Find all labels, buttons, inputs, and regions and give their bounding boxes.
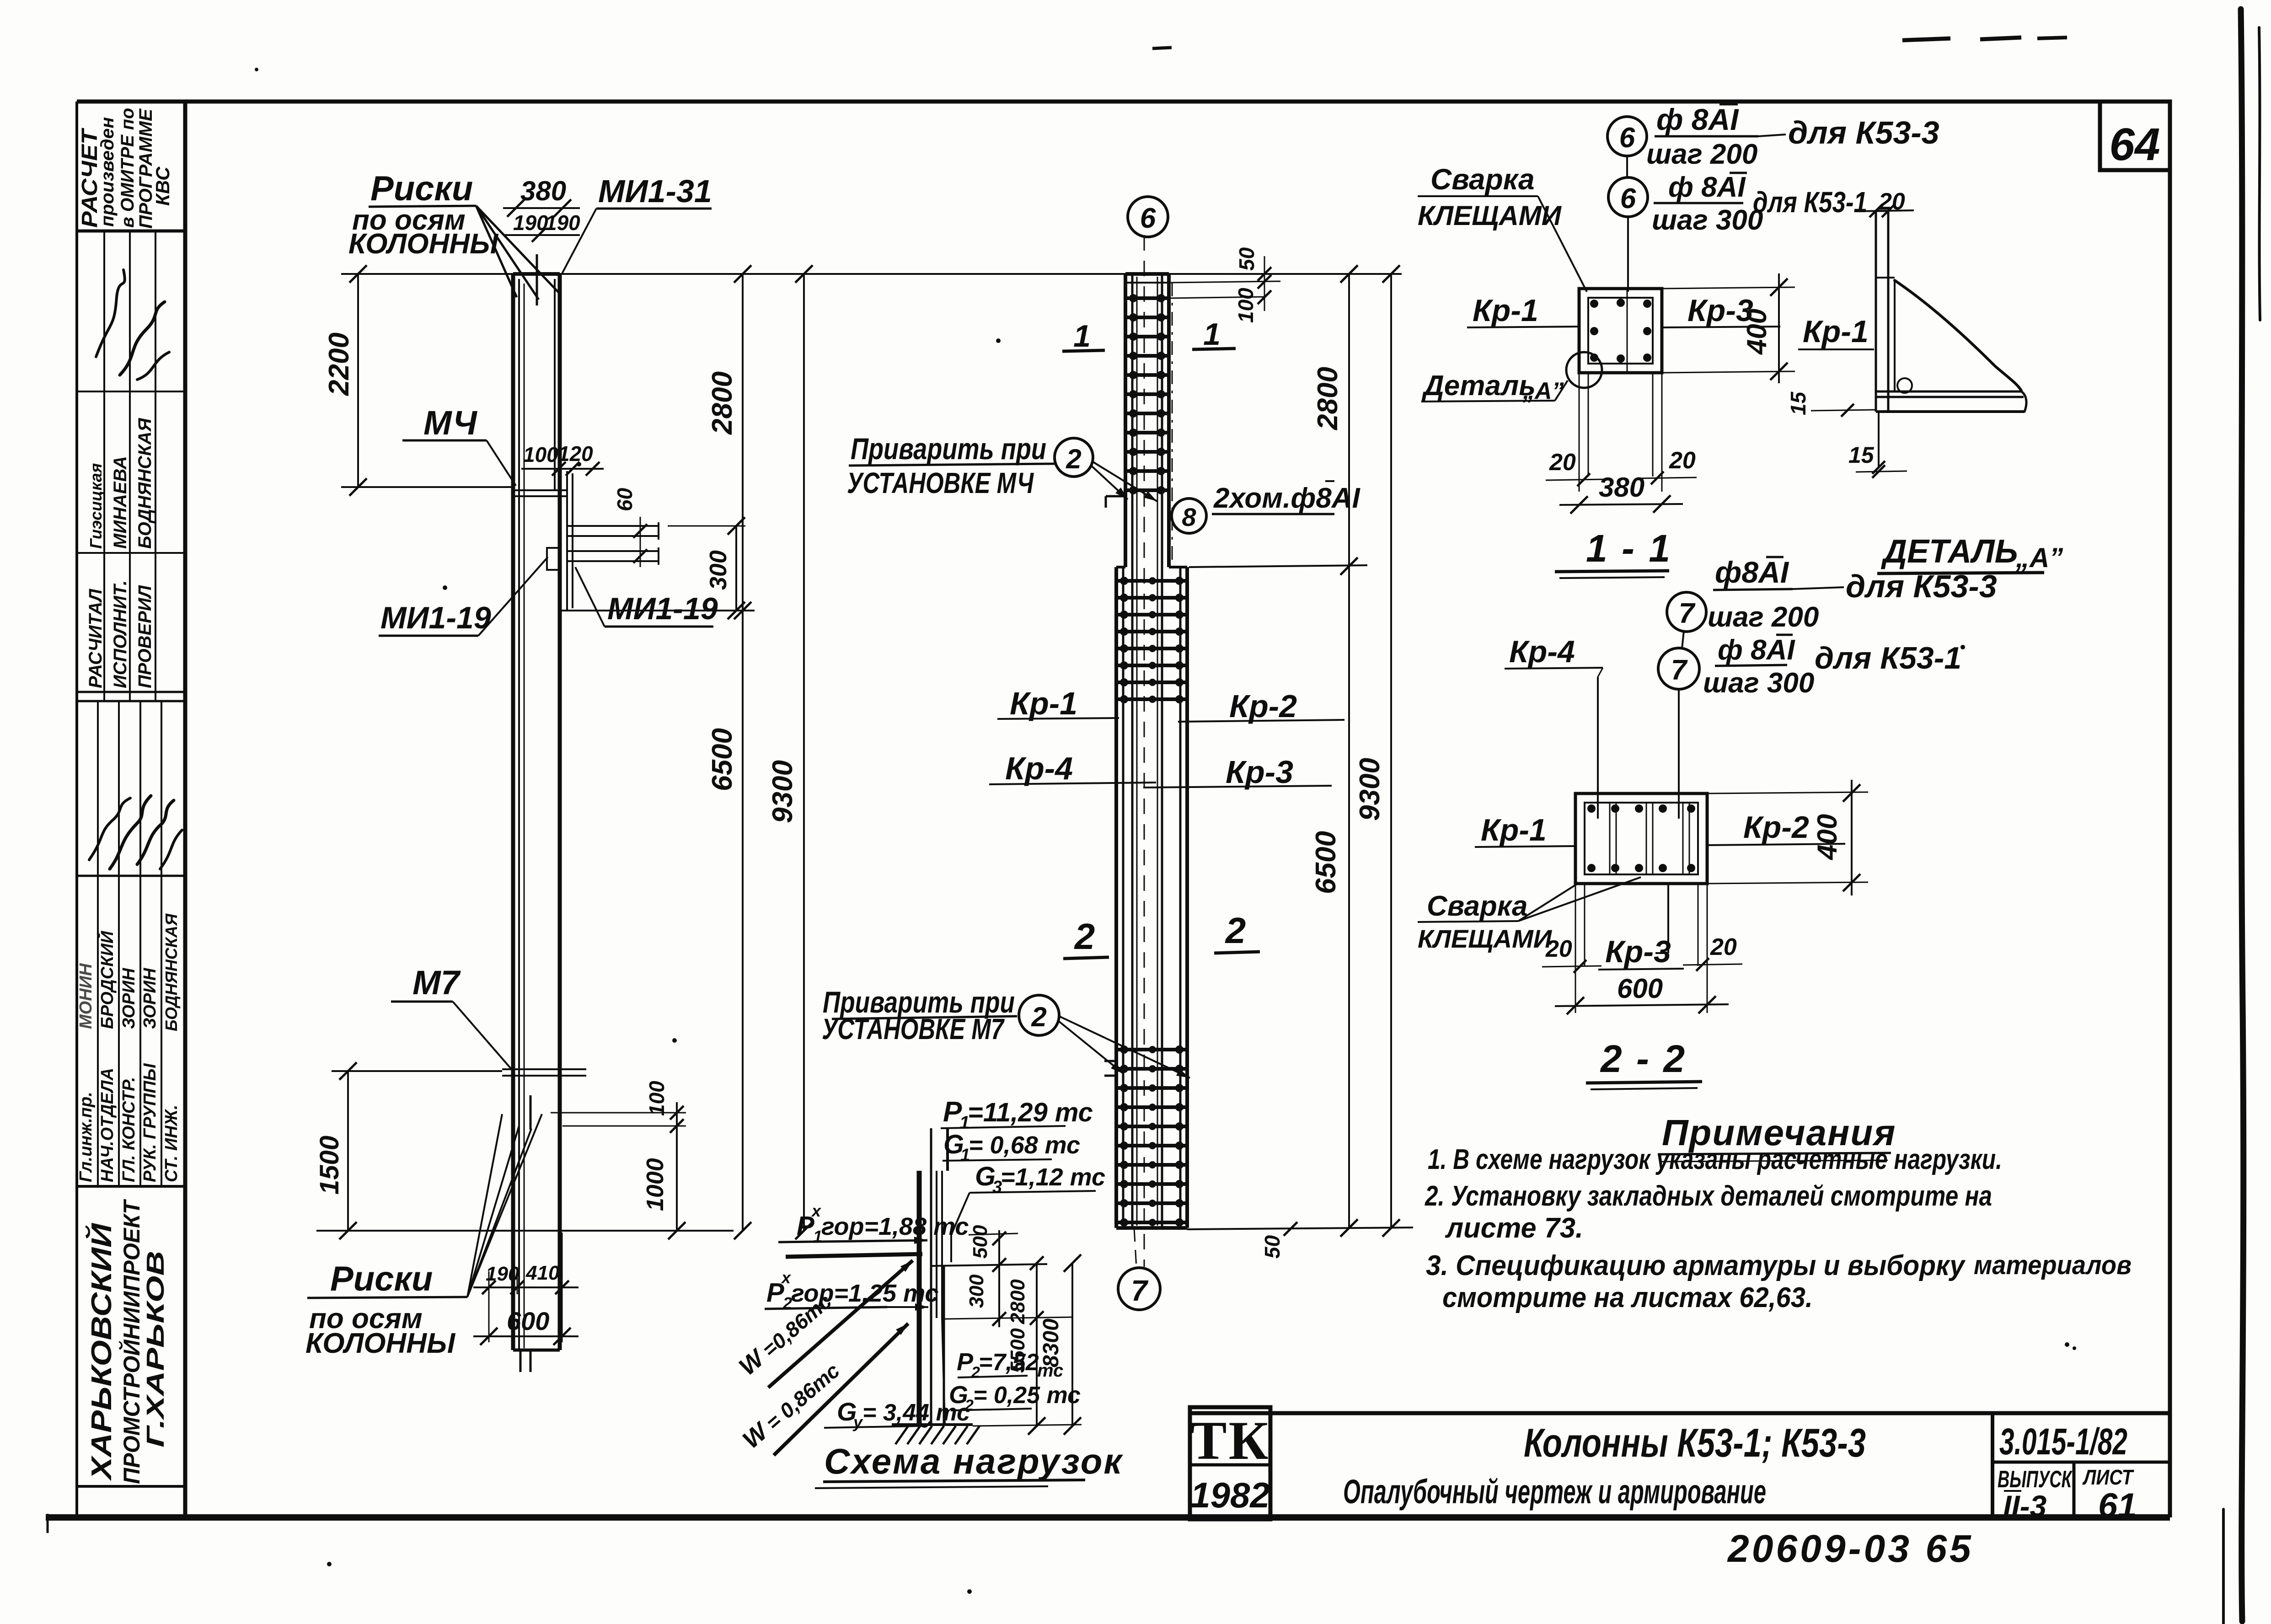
svg-text:6500: 6500 [707, 728, 738, 791]
svg-text:= 0,25 тс: = 0,25 тс [973, 1382, 1081, 1409]
svg-text:190: 190 [545, 211, 580, 235]
svg-text:УСТАНОВКЕ М7: УСТАНОВКЕ М7 [822, 1013, 1005, 1045]
svg-text:шаг 200: шаг 200 [1646, 139, 1757, 170]
svg-text:2: 2 [1225, 910, 1246, 951]
svg-text:ЗОРИН: ЗОРИН [140, 967, 160, 1029]
svg-text:БРОДСКИЙ: БРОДСКИЙ [96, 931, 117, 1029]
svg-text:6: 6 [1620, 183, 1636, 214]
svg-text:60: 60 [613, 488, 637, 511]
svg-text:600: 600 [1617, 973, 1663, 1004]
svg-text:Кр-4: Кр-4 [1509, 634, 1575, 669]
svg-text:9300: 9300 [1354, 758, 1386, 821]
svg-text:шаг 300: шаг 300 [1703, 667, 1814, 699]
svg-text:УСТАНОВКЕ МЧ: УСТАНОВКЕ МЧ [847, 466, 1034, 499]
svg-text:ЗОРИН: ЗОРИН [119, 967, 139, 1029]
svg-text:1 - 1: 1 - 1 [1586, 527, 1672, 570]
svg-text:Опалубочный чертеж и армирован: Опалубочный чертеж и армирование [1343, 1473, 1766, 1511]
svg-text:Риски: Риски [370, 169, 473, 208]
svg-text:3.015-1/82: 3.015-1/82 [1999, 1421, 2127, 1463]
svg-text:Г.ХАРЬКОВ: Г.ХАРЬКОВ [142, 1251, 169, 1447]
svg-text:КЛЕЩАМИ: КЛЕЩАМИ [1418, 200, 1562, 231]
svg-text:2800: 2800 [1312, 367, 1344, 430]
svg-text:КЛЕЩАМИ: КЛЕЩАМИ [1418, 924, 1553, 953]
svg-text:КВС: КВС [152, 166, 173, 206]
svg-text:листе 73.: листе 73. [1445, 1212, 1583, 1244]
svg-text:2: 2 [964, 1397, 974, 1414]
svg-text:2800: 2800 [1007, 1279, 1029, 1324]
svg-text:ДЕТАЛЬ: ДЕТАЛЬ [1880, 533, 2018, 570]
svg-text:20: 20 [1545, 936, 1572, 962]
svg-text:смотрите на листах 62,63.: смотрите на листах 62,63. [1442, 1282, 1813, 1313]
svg-text:Схема нагрузок: Схема нагрузок [824, 1441, 1123, 1481]
svg-text:Кр-3: Кр-3 [1605, 934, 1671, 969]
svg-text:20609-03 65: 20609-03 65 [1727, 1527, 1974, 1570]
svg-text:15: 15 [1786, 391, 1810, 415]
svg-text:600: 600 [507, 1307, 549, 1335]
svg-text:Приварить при: Приварить при [851, 432, 1046, 466]
svg-text:2: 2 [1074, 916, 1095, 957]
svg-text:ф 8АI: ф 8АI [1718, 634, 1795, 666]
svg-text:1500: 1500 [315, 1136, 344, 1195]
svg-text:Колонны К53-1; К53-3: Колонны К53-1; К53-3 [1524, 1420, 1866, 1465]
svg-text:7: 7 [1679, 598, 1696, 629]
svg-text:Сварка: Сварка [1427, 890, 1527, 922]
svg-text:ТК: ТК [1190, 1410, 1270, 1471]
svg-text:400: 400 [1741, 309, 1772, 355]
svg-text:50: 50 [1235, 247, 1259, 271]
svg-text:ф 8АI: ф 8АI [1656, 102, 1739, 136]
svg-text:ХАРЬКОВСКИЙ: ХАРЬКОВСКИЙ [85, 1222, 118, 1481]
svg-text:Деталь: Деталь [1421, 370, 1536, 402]
svg-text:х: х [781, 1268, 792, 1287]
svg-text:20: 20 [1710, 934, 1737, 960]
svg-text:2 - 2: 2 - 2 [1600, 1037, 1687, 1080]
svg-text:Кр-1: Кр-1 [1010, 686, 1077, 721]
svg-text:410: 410 [525, 1262, 560, 1284]
svg-text:5500: 5500 [1007, 1328, 1029, 1373]
svg-text:материалов: материалов [1974, 1250, 2132, 1280]
svg-text:20: 20 [1669, 447, 1696, 474]
svg-text:400: 400 [1812, 814, 1843, 860]
svg-text:61: 61 [2098, 1486, 2137, 1525]
svg-text:ЛИСТ: ЛИСТ [2082, 1465, 2134, 1489]
svg-text:2800: 2800 [707, 371, 738, 435]
svg-text:64: 64 [2109, 119, 2160, 170]
svg-text:ИСПОЛНИТ.: ИСПОЛНИТ. [110, 580, 130, 688]
svg-text:КОЛОННЫ: КОЛОННЫ [348, 228, 499, 260]
svg-text:100: 100 [523, 443, 558, 466]
svg-text:ф8АI: ф8АI [1715, 555, 1789, 589]
svg-text:для К53-3: для К53-3 [1846, 568, 1997, 604]
svg-text:= 0,68 тс: = 0,68 тс [969, 1131, 1080, 1159]
svg-text:КОЛОННЫ: КОЛОННЫ [305, 1328, 456, 1359]
svg-text:300: 300 [965, 1274, 988, 1308]
svg-text:6: 6 [1140, 203, 1156, 234]
svg-text:Риски: Риски [330, 1260, 433, 1298]
svg-text:Кр-1: Кр-1 [1481, 813, 1547, 847]
svg-text:М7: М7 [412, 964, 461, 1002]
svg-text:БОДНЯНСКАЯ: БОДНЯНСКАЯ [135, 418, 155, 549]
svg-text:ПРОВЕРИЛ: ПРОВЕРИЛ [135, 584, 155, 688]
svg-text:НАЧ.ОТДЕЛА: НАЧ.ОТДЕЛА [98, 1068, 117, 1182]
svg-text:100: 100 [1234, 288, 1258, 323]
svg-text:Кр-1: Кр-1 [1473, 293, 1538, 328]
svg-text:в ОМИТРЕ по: в ОМИТРЕ по [118, 108, 138, 228]
svg-text:ГЛ. КОНСТР.: ГЛ. КОНСТР. [119, 1077, 139, 1182]
svg-text:Гл.инж.пр.: Гл.инж.пр. [76, 1092, 96, 1182]
svg-text:20: 20 [1549, 449, 1576, 476]
svg-text:8300: 8300 [1039, 1318, 1063, 1367]
svg-text:3. Спецификацию арматуры и выб: 3. Спецификацию арматуры и выборку [1426, 1250, 1966, 1281]
svg-text:Кр-4: Кр-4 [1005, 750, 1073, 786]
svg-text:ПРОМСТРОЙНИИПРОЕКТ: ПРОМСТРОЙНИИПРОЕКТ [118, 1199, 145, 1484]
svg-text:120: 120 [558, 442, 593, 466]
svg-text:для К53-1: для К53-1 [1753, 186, 1867, 219]
svg-text:8: 8 [1182, 503, 1196, 531]
svg-text:=1,12 тс: =1,12 тс [1001, 1163, 1105, 1191]
svg-text:РУК. ГРУППЫ: РУК. ГРУППЫ [140, 1063, 160, 1182]
svg-text:Гиэсицкая: Гиэсицкая [86, 463, 105, 549]
svg-text:2: 2 [1066, 444, 1081, 474]
svg-text:2: 2 [1031, 1002, 1046, 1032]
svg-text:Кр-2: Кр-2 [1743, 810, 1809, 845]
svg-text:Кр-3: Кр-3 [1226, 754, 1293, 790]
svg-text:„А”: „А” [2015, 542, 2063, 573]
svg-text:шаг 200: шаг 200 [1708, 601, 1819, 633]
svg-text:МИНАЕВА: МИНАЕВА [110, 456, 130, 549]
svg-text:РАСЧИТАЛ: РАСЧИТАЛ [86, 588, 106, 688]
svg-text:1: 1 [1073, 319, 1091, 354]
svg-text:МИ1-19: МИ1-19 [380, 600, 491, 635]
svg-text:ф 8АI: ф 8АI [1668, 172, 1746, 203]
svg-text:2. Установку закладных деталей: 2. Установку закладных деталей смотрите … [1425, 1180, 1992, 1212]
svg-text:1. В схеме нагрузок указаны ра: 1. В схеме нагрузок указаны расчетные на… [1428, 1144, 2002, 1175]
svg-text:2200: 2200 [323, 332, 355, 396]
svg-text:МОНИН: МОНИН [76, 963, 96, 1029]
svg-text:х: х [811, 1201, 822, 1220]
svg-text:для К53-1: для К53-1 [1815, 641, 1961, 675]
svg-text:БОДНЯНСКАЯ: БОДНЯНСКАЯ [162, 913, 181, 1031]
svg-text:СТ. ИНЖ.: СТ. ИНЖ. [162, 1105, 181, 1182]
svg-text:9300: 9300 [767, 760, 798, 823]
svg-text:II-3: II-3 [2003, 1489, 2046, 1523]
svg-text:100: 100 [645, 1081, 669, 1116]
svg-text:МИ1-31: МИ1-31 [598, 173, 712, 209]
svg-text:300: 300 [705, 550, 732, 590]
svg-text:МЧ: МЧ [423, 404, 477, 442]
svg-text:Сварка: Сварка [1430, 163, 1535, 196]
svg-text:гор=1,88 тс: гор=1,88 тс [821, 1213, 969, 1240]
svg-text:для К53-3: для К53-3 [1788, 115, 1939, 150]
svg-text:у: у [852, 1413, 863, 1431]
svg-text:Кр-2: Кр-2 [1229, 688, 1297, 724]
svg-text:6: 6 [1619, 122, 1635, 154]
svg-text:15: 15 [1848, 442, 1875, 468]
svg-text:380: 380 [1599, 472, 1644, 503]
svg-text:МИ1-19: МИ1-19 [607, 591, 718, 626]
svg-text:7: 7 [1131, 1274, 1149, 1307]
svg-text:7: 7 [1671, 654, 1688, 686]
svg-text:50: 50 [1260, 1235, 1284, 1259]
svg-text:500: 500 [969, 1225, 991, 1259]
svg-text:190: 190 [486, 1263, 520, 1285]
svg-text:6500: 6500 [1310, 831, 1342, 894]
svg-text:1000: 1000 [642, 1158, 669, 1211]
svg-text:2хом.ф8АI: 2хом.ф8АI [1213, 482, 1360, 514]
svg-text:произведен: произведен [97, 117, 118, 227]
svg-text:1982: 1982 [1190, 1475, 1270, 1515]
svg-text:=11,29 тс: =11,29 тс [968, 1098, 1093, 1127]
svg-text:шаг 300: шаг 300 [1652, 204, 1763, 236]
svg-text:380: 380 [520, 176, 566, 206]
svg-text:1: 1 [1203, 317, 1221, 352]
svg-text:Кр-1: Кр-1 [1803, 314, 1869, 349]
